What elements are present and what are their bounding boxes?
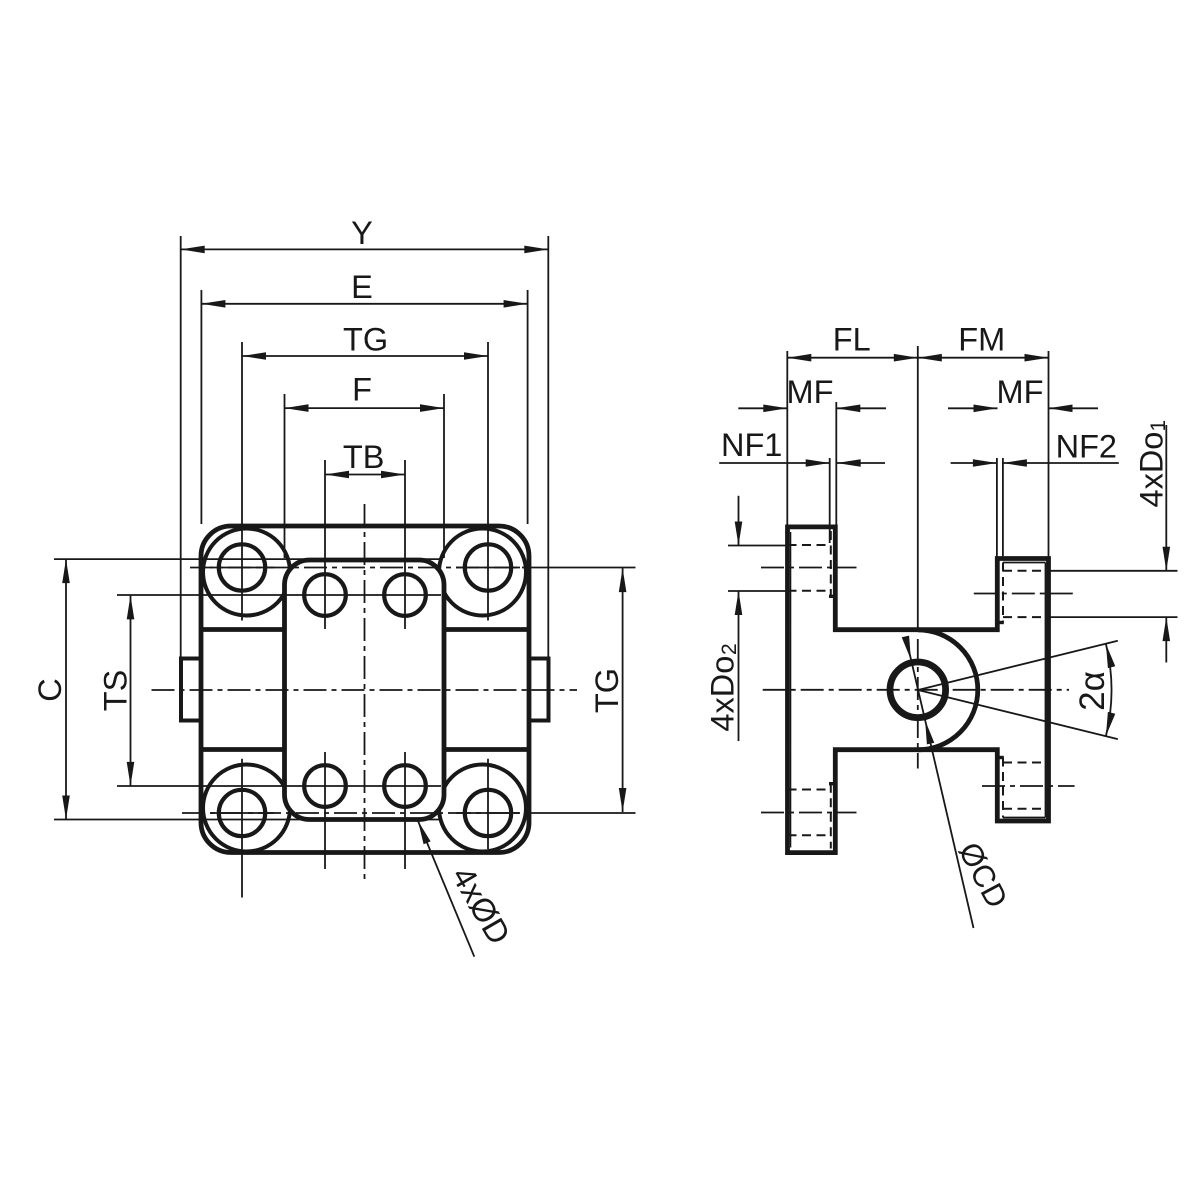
left view: flange body outline	[201, 526, 529, 853]
corner hole bottom-left	[219, 790, 265, 836]
leader 4xOD to inner hole	[418, 821, 474, 957]
left flange pocket visible edges	[790, 532, 792, 848]
right flange pocket visible edges	[1045, 563, 1047, 818]
left flange pocket step tick bottom	[829, 782, 836, 785]
inner hole top-right	[384, 574, 426, 616]
svg-text:C: C	[32, 678, 68, 701]
dimension 4xDo2 (left flange hole dia)	[738, 496, 740, 546]
dimension TG vertical (right of left view)	[622, 568, 624, 812]
svg-text:F: F	[352, 372, 372, 408]
svg-text:1: 1	[1147, 420, 1170, 432]
svg-text:4xDo: 4xDo	[1134, 432, 1170, 508]
boss circle top-right	[439, 529, 526, 616]
centerline row through top corner holes	[190, 567, 530, 569]
left flange hidden hole bottom	[788, 789, 831, 791]
right flange pocket step tick top	[997, 621, 1004, 624]
svg-text:MF: MF	[787, 374, 834, 410]
leader OCD to pivot hole	[906, 638, 974, 928]
svg-text:2: 2	[718, 643, 741, 655]
angle lines 2-alpha	[918, 641, 1118, 690]
svg-text:TS: TS	[98, 670, 134, 712]
pivot boss arc	[918, 630, 978, 750]
vertical centerline right view	[917, 346, 919, 630]
svg-text:NF1: NF1	[721, 427, 782, 463]
svg-text:TB: TB	[343, 439, 385, 475]
dimension 4xDo1 (right flange hole dia)	[1165, 425, 1167, 571]
horizontal centerline right view	[763, 689, 1069, 691]
dimension MF right	[948, 407, 998, 409]
corner hole top-right	[465, 544, 511, 590]
boss circle bottom-left	[203, 765, 290, 852]
centerline left flange top hole	[761, 567, 857, 569]
corner hole bottom-right	[465, 790, 511, 836]
right flange hidden pocket edge bottom	[1002, 758, 1004, 818]
svg-text:E: E	[351, 269, 373, 305]
svg-text:2α: 2α	[1073, 671, 1112, 711]
right flange hidden hole top	[1003, 570, 1049, 572]
left pocket ledge top	[203, 627, 285, 632]
dimension MF left	[738, 407, 787, 409]
boss circle bottom-right	[439, 765, 526, 852]
dimension TS	[130, 595, 132, 786]
dimension FM	[918, 354, 942, 362]
svg-text:FL: FL	[833, 322, 871, 358]
dimension E	[201, 303, 527, 305]
dimension NF2	[951, 462, 997, 464]
right side tab	[529, 659, 549, 721]
centerline left flange bottom hole	[761, 812, 857, 814]
svg-text:4xDo: 4xDo	[704, 656, 740, 732]
left flange hidden hole top	[788, 544, 831, 546]
right flange pocket step tick bottom	[997, 756, 1004, 759]
vertical crosshair bottom inner holes	[324, 752, 326, 869]
inner hole bottom-left	[304, 765, 346, 807]
svg-text:MF: MF	[997, 374, 1044, 410]
vertical centerline of left view	[364, 504, 366, 884]
dimension C	[65, 559, 67, 819]
right flange hidden hole bottom	[1003, 762, 1049, 764]
dimension TG horizontal	[242, 355, 488, 357]
centerline right flange bottom hole	[982, 785, 1075, 787]
horizontal centerline of left view	[152, 689, 578, 691]
svg-text:TG: TG	[589, 668, 625, 713]
dimension TB	[325, 474, 405, 476]
vertical crosshair bottom-left corner hole	[241, 759, 243, 898]
dimension FL	[787, 357, 918, 359]
svg-text:FM: FM	[958, 322, 1005, 358]
pivot hole CD	[890, 662, 946, 718]
right pocket ledge top	[444, 627, 527, 632]
right flange hidden pocket edge top	[1002, 563, 1004, 623]
centerline row through bottom corner holes	[182, 812, 530, 814]
svg-text:NF2: NF2	[1056, 429, 1117, 465]
right pocket ledge bottom	[444, 747, 527, 752]
svg-text:TG: TG	[343, 322, 388, 358]
left pocket ledge bottom	[203, 747, 285, 752]
angle arc 2-alpha	[1106, 644, 1112, 736]
left side tab	[181, 659, 201, 721]
dimension F	[285, 407, 445, 409]
svg-text:Y: Y	[351, 215, 373, 251]
boss circle top-left	[203, 529, 290, 616]
left flange hidden pocket edge top	[830, 531, 832, 596]
left flange hidden pocket edge bottom	[830, 784, 832, 849]
inner hole bottom-right	[384, 765, 426, 807]
corner hole top-left	[219, 544, 265, 590]
right view: H-profile outline	[788, 527, 1049, 853]
centerline right flange top hole	[974, 593, 1078, 595]
inner hole top-left	[304, 574, 346, 616]
extension lines FL/FM	[786, 351, 788, 526]
dimension NF1	[719, 462, 830, 464]
inner plate (cylinder profile)	[285, 560, 445, 820]
vertical crosshair bottom-right corner hole	[487, 759, 489, 849]
left flange pocket step tick top	[829, 595, 836, 598]
dimension Y	[181, 248, 549, 250]
